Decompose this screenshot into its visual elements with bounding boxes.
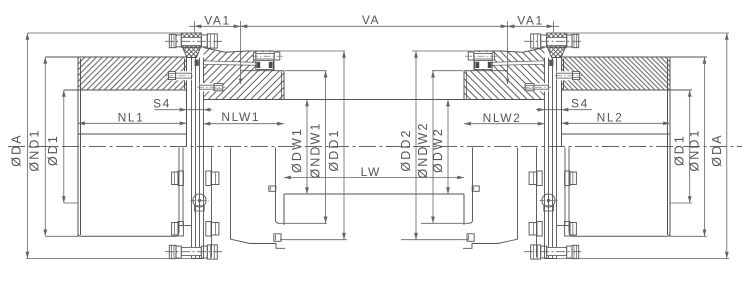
right sleeve + cover section hatch	[464, 48, 545, 100]
left lube plug on end face	[274, 234, 281, 242]
svg-text:NLW2: NLW2	[483, 111, 522, 125]
left cover screw	[251, 52, 283, 60]
right hub section hatch	[562, 57, 671, 90]
left locking element	[256, 61, 274, 70]
right locking element	[475, 61, 493, 70]
right sleeve exterior (bottom view)	[463, 148, 537, 258]
dimension NL2	[562, 111, 671, 126]
svg-text:ØDD1: ØDD1	[327, 128, 341, 171]
DA extension lines top	[27, 32, 181, 34]
dimension ND1 right	[704, 57, 706, 236]
left sleeve outline	[204, 48, 285, 100]
hub bore lines + D1 extension lines	[64, 89, 187, 91]
right lube plug small	[472, 186, 479, 191]
svg-text:NL1: NL1	[118, 111, 145, 125]
left flange riser	[183, 47, 201, 57]
left sleeve-side fitting bolt	[197, 83, 226, 91]
right cover slot	[492, 61, 544, 66]
right bottom flange bolt	[524, 245, 583, 259]
right flange plates	[545, 58, 557, 259]
left fitting ring	[195, 60, 199, 66]
left flange bolts (exterior projections)	[172, 171, 219, 236]
svg-text:ØND1: ØND1	[688, 128, 702, 171]
svg-text:ØDA: ØDA	[710, 133, 724, 166]
dimension D1 left	[63, 90, 65, 203]
cover OD extension lines	[275, 50, 345, 52]
left hub-side fitting bolt	[166, 71, 193, 80]
svg-text:VA: VA	[362, 13, 380, 27]
left flange rim (bolt boss) hatched	[181, 33, 201, 47]
dimension DD2	[415, 51, 417, 240]
left flange plates	[192, 58, 204, 259]
right top flange bolt	[524, 34, 583, 48]
left bottom flange bolt	[165, 245, 224, 259]
left top flange bolt	[165, 34, 224, 48]
left lube plug small	[269, 186, 276, 191]
svg-text:S4: S4	[571, 97, 589, 111]
right flange riser	[548, 47, 566, 57]
dimension S4 right	[536, 97, 592, 112]
dimension DD1	[343, 51, 345, 240]
left hub exterior bottom edge	[78, 148, 192, 237]
spacer tube outline	[204, 99, 545, 101]
right flange rim (bolt boss) hatched	[547, 33, 567, 47]
dimension NLW1	[204, 110, 285, 125]
right hub exterior bottom edge	[557, 148, 671, 237]
svg-text:ØNDW1: ØNDW1	[309, 121, 323, 178]
svg-text:S4: S4	[153, 97, 171, 111]
left hub outline	[78, 57, 187, 236]
right sleeve-side fitting bolt	[523, 83, 552, 91]
svg-text:ØDA: ØDA	[9, 133, 23, 166]
dimension LW	[284, 165, 464, 179]
left cover slot	[204, 61, 256, 66]
svg-text:VA1: VA1	[204, 14, 231, 28]
hub bottom edges + ND1 extension lines	[45, 235, 78, 237]
right lube plug on end face	[467, 234, 474, 242]
right cover screw	[465, 52, 497, 60]
dimension VA	[241, 13, 508, 28]
DA extension + flange bottom lines	[26, 258, 192, 260]
dimension DW2	[447, 100, 449, 195]
right hub outline	[562, 57, 671, 236]
dimension D1 right	[689, 90, 691, 203]
dimension NDW1	[325, 71, 327, 224]
svg-text:ØDW2: ØDW2	[431, 127, 445, 173]
VA boundary extension with pointer left	[240, 21, 242, 84]
svg-text:ØD1: ØD1	[46, 134, 60, 166]
left bolt hole at pitch line	[191, 192, 209, 212]
svg-text:VA1: VA1	[517, 14, 544, 28]
right flange bolts (exterior projections)	[529, 171, 576, 236]
left sleeve exterior (bottom view)	[212, 148, 286, 258]
dimension NDW2	[432, 71, 434, 224]
right sleeve outline	[464, 48, 545, 100]
right bolt hole at pitch line	[540, 192, 558, 212]
dimension DA left	[26, 33, 28, 259]
dimension DA right	[726, 33, 728, 259]
svg-text:ØDW1: ØDW1	[290, 127, 304, 173]
dimension DW1	[306, 100, 308, 195]
svg-text:NLW1: NLW1	[221, 110, 260, 124]
sleeve OD extension lines	[285, 70, 327, 72]
dimension VA1 right	[505, 14, 559, 33]
svg-text:ØNDW2: ØNDW2	[416, 121, 430, 178]
right fitting ring	[549, 60, 553, 66]
svg-text:ØND1: ØND1	[27, 128, 41, 171]
VA boundary extension with pointer right	[507, 21, 509, 84]
svg-text:LW: LW	[361, 165, 381, 179]
hub top edges + ND1 extension lines	[45, 56, 186, 58]
svg-text:ØDD2: ØDD2	[399, 128, 413, 171]
dimension NL1	[78, 111, 187, 126]
right hub-side fitting bolt	[555, 71, 582, 80]
main centerline	[8, 146, 742, 148]
dimension NLW2	[464, 111, 545, 125]
left sleeve + cover section hatch	[204, 48, 285, 100]
svg-text:NL2: NL2	[597, 111, 624, 125]
dimension ND1 left	[44, 57, 46, 236]
dimension S4 left	[153, 97, 212, 112]
left hub section hatch	[78, 57, 187, 90]
svg-text:ØD1: ØD1	[673, 134, 687, 166]
dimension VA1 left	[189, 14, 243, 33]
